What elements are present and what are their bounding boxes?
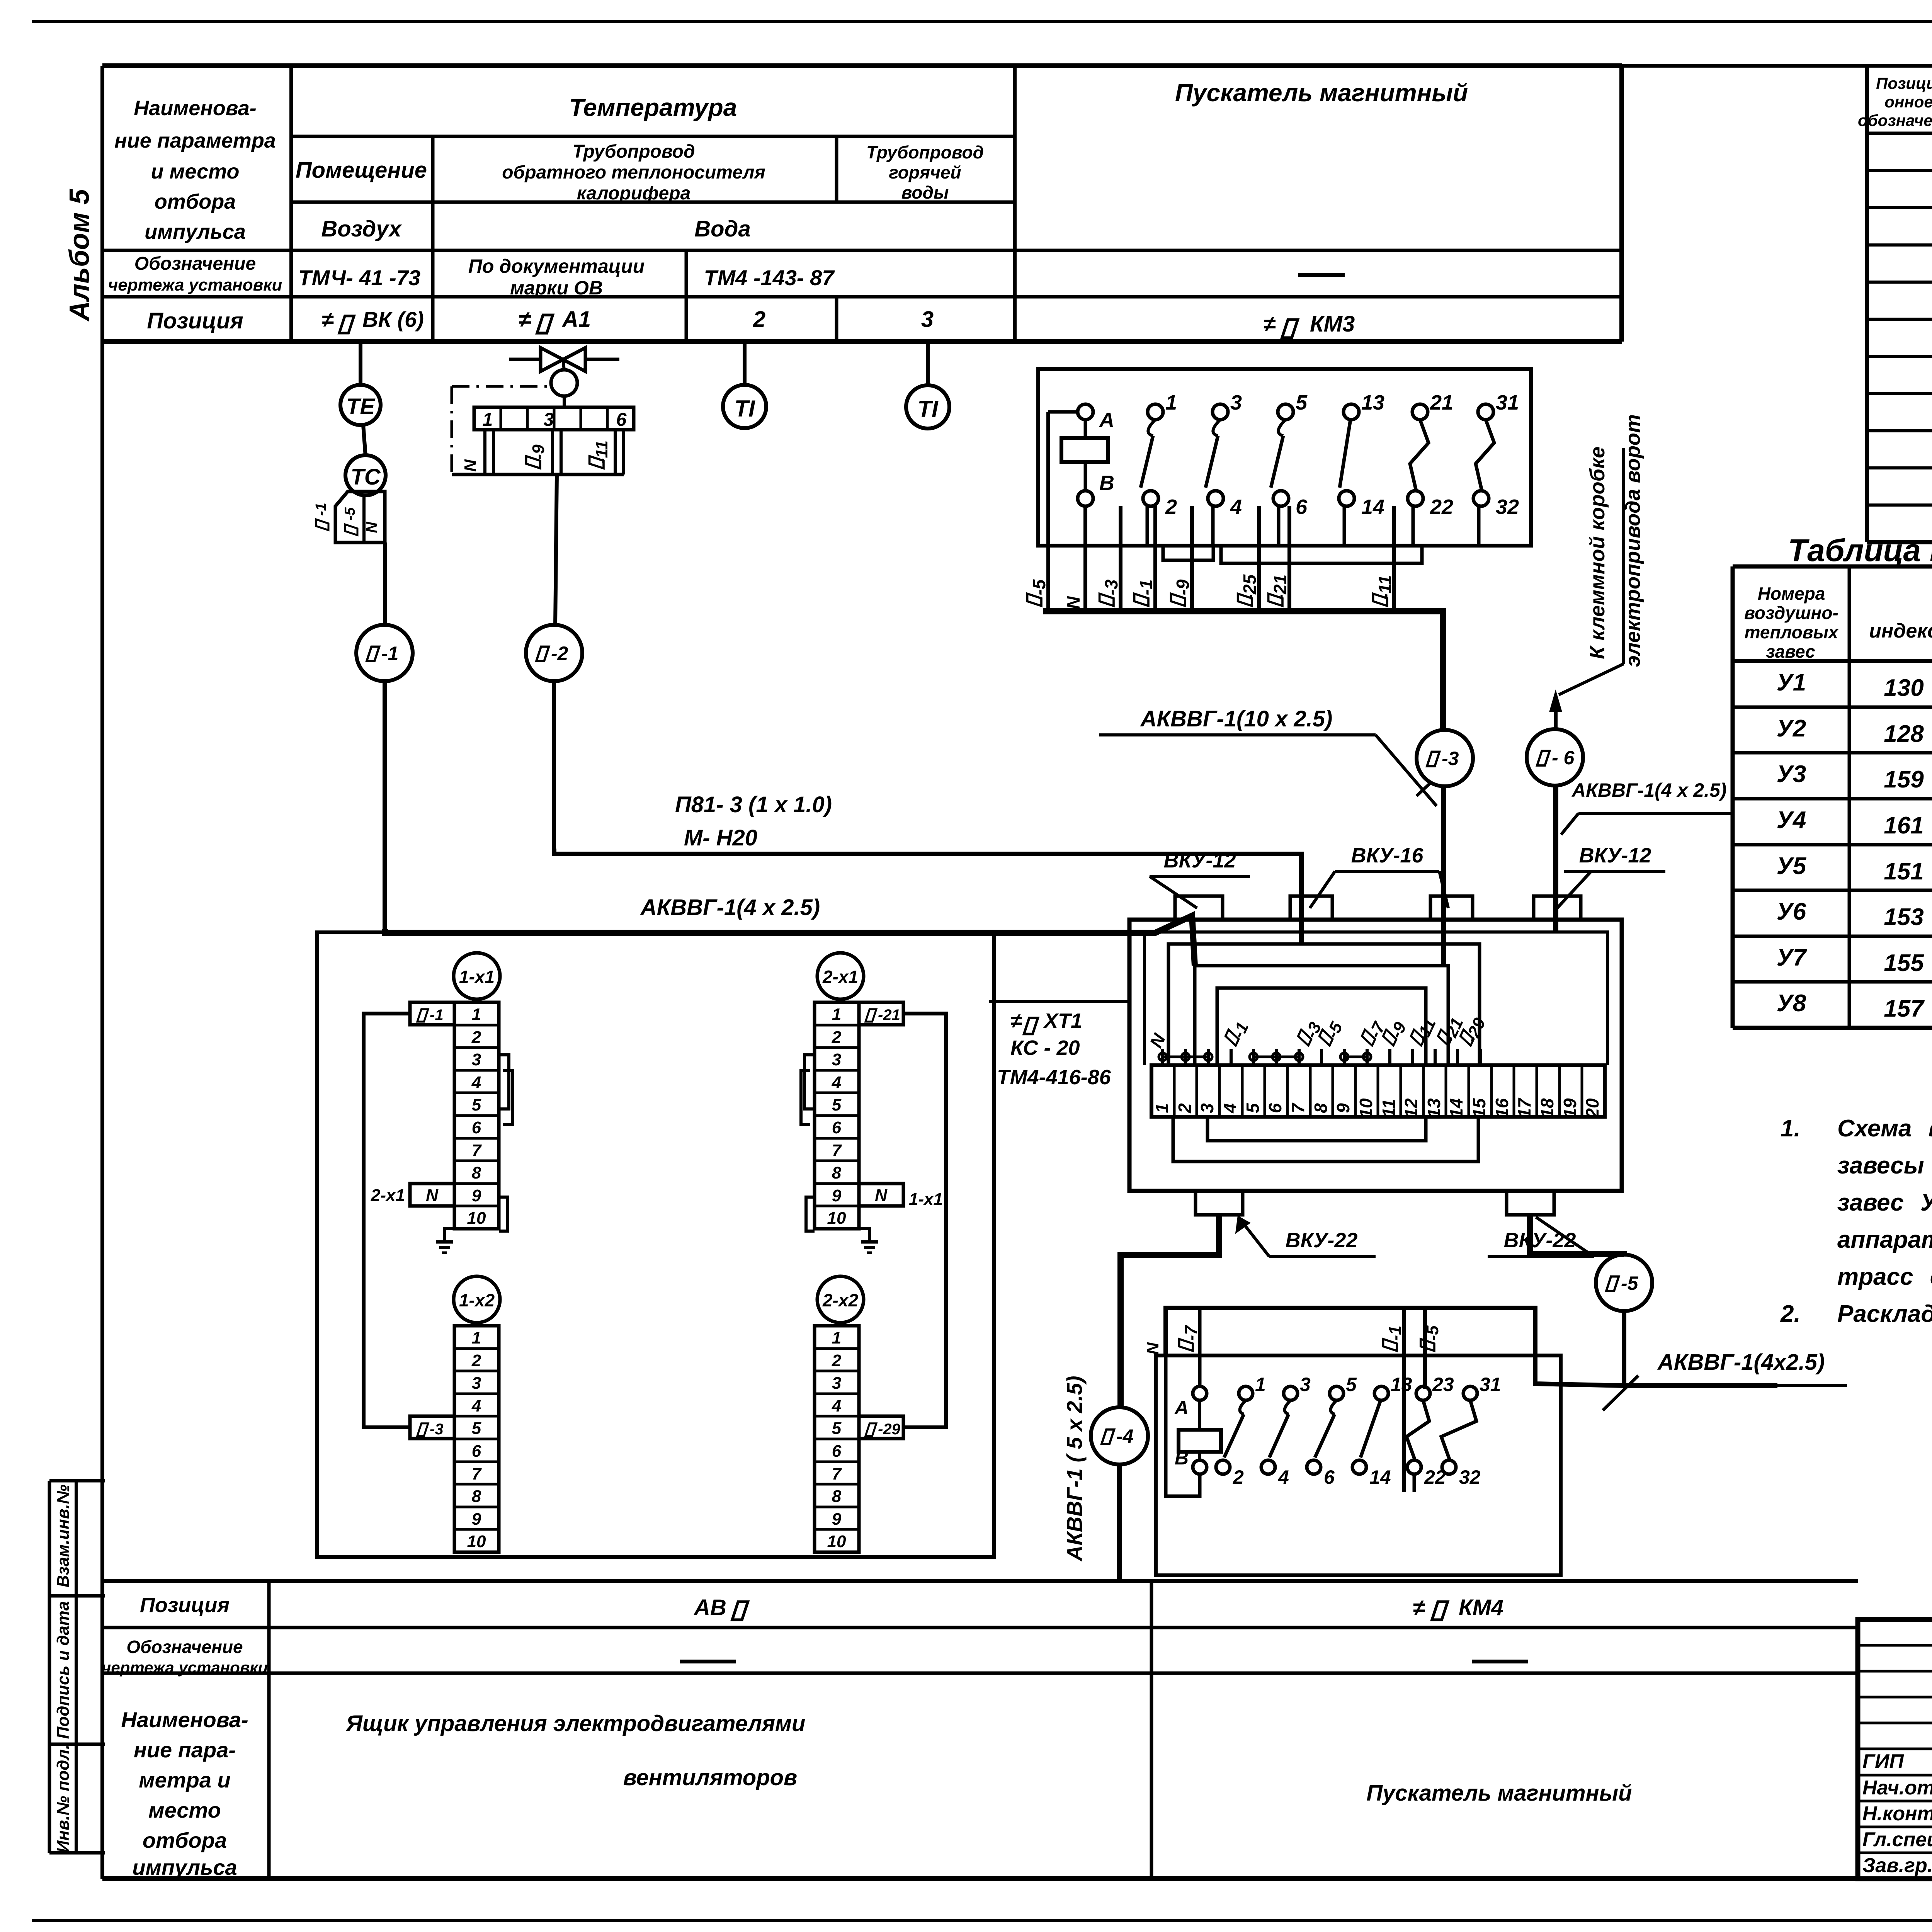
svg-text:4: 4 bbox=[1230, 495, 1242, 519]
svg-text:6: 6 bbox=[832, 1442, 842, 1461]
svg-text:5: 5 bbox=[472, 1095, 481, 1114]
svg-text:13: 13 bbox=[1424, 1098, 1444, 1118]
tab N (to 2-x1) on 1-x1 bbox=[410, 1184, 454, 1206]
svg-text:2-х1: 2-х1 bbox=[822, 967, 858, 987]
leader to gate terminal box note bbox=[1622, 448, 1625, 664]
svg-text:1: 1 bbox=[472, 1005, 481, 1024]
svg-text:1: 1 bbox=[1255, 1374, 1266, 1395]
sheet frame border bbox=[102, 64, 1932, 68]
svg-text:-1: -1 bbox=[430, 1007, 444, 1024]
sensor TE bbox=[359, 343, 362, 385]
svg-text:6: 6 bbox=[1265, 1103, 1285, 1113]
svg-text:7: 7 bbox=[832, 1141, 842, 1160]
svg-text:место: место bbox=[148, 1798, 221, 1822]
svg-text:ХТ1: ХТ1 bbox=[1043, 1009, 1082, 1032]
svg-text:А: А bbox=[1099, 408, 1114, 432]
svg-text:14: 14 bbox=[1446, 1098, 1466, 1118]
left margin stamp boxes bbox=[49, 1479, 105, 1483]
svg-text:обратного теплоносителя: обратного теплоносителя bbox=[502, 162, 765, 183]
svg-text:Трубопровод: Трубопровод bbox=[866, 142, 984, 162]
svg-text:Обозначение: Обозначение bbox=[126, 1637, 243, 1657]
svg-text:П81- 3 (1 х 1.0): П81- 3 (1 х 1.0) bbox=[675, 792, 832, 817]
KM4 wire D-5 bbox=[1423, 1308, 1427, 1389]
svg-text:импульса: импульса bbox=[145, 220, 246, 243]
applicability table grid bbox=[1733, 565, 1932, 569]
svg-text:Позици-: Позици- bbox=[1876, 74, 1932, 92]
svg-text:Наименова-: Наименова- bbox=[121, 1708, 248, 1732]
title block bbox=[1858, 1619, 1932, 1879]
terminal strip 2-х2 body bbox=[815, 1326, 859, 1552]
svg-text:Нач.отд: Нач.отд bbox=[1862, 1777, 1932, 1799]
leader from label to box bbox=[989, 1000, 1129, 1003]
svg-text:-11: -11 bbox=[592, 440, 611, 464]
cable run to P-5 bbox=[1530, 1215, 1624, 1255]
svg-text:ТМ4 -143- 87: ТМ4 -143- 87 bbox=[704, 265, 835, 290]
trace circle P-1 bbox=[356, 625, 413, 681]
svg-text:завес: завес bbox=[1766, 641, 1815, 662]
jumper bracket rows 9-10 of 1-x1 bbox=[499, 1197, 507, 1231]
svg-text:Температура: Температура bbox=[569, 94, 737, 121]
svg-text:≠: ≠ bbox=[322, 307, 334, 332]
KM4 contact 31/32 bbox=[1463, 1386, 1477, 1400]
svg-text:1-х1: 1-х1 bbox=[909, 1190, 943, 1209]
svg-text:7: 7 bbox=[1288, 1102, 1308, 1113]
svg-text:155: 155 bbox=[1884, 950, 1924, 976]
svg-text:6: 6 bbox=[1324, 1466, 1335, 1488]
svg-text:ние пара-: ние пара- bbox=[134, 1738, 236, 1762]
svg-text:отбора: отбора bbox=[143, 1828, 227, 1852]
svg-text:1: 1 bbox=[832, 1328, 841, 1347]
svg-text:калорифера: калорифера bbox=[577, 183, 691, 204]
svg-text:13: 13 bbox=[1361, 391, 1384, 414]
magnetic starter KM3 box bbox=[1038, 369, 1531, 546]
svg-text:А: А bbox=[1174, 1397, 1189, 1418]
svg-text:16: 16 bbox=[1492, 1098, 1512, 1118]
cable bus to P-3 bbox=[1043, 611, 1443, 730]
svg-text:2: 2 bbox=[1233, 1466, 1244, 1488]
valve terminal strip 1..6 bbox=[563, 396, 566, 407]
svg-text:N: N bbox=[363, 521, 380, 533]
svg-text:ВК (6): ВК (6) bbox=[362, 307, 424, 332]
svg-text:9: 9 bbox=[472, 1186, 481, 1205]
KM3 contact 3/4 bbox=[1213, 404, 1228, 420]
svg-text:2: 2 bbox=[1165, 495, 1177, 519]
svg-text:≠: ≠ bbox=[1010, 1009, 1022, 1032]
svg-text:11: 11 bbox=[1379, 1099, 1399, 1117]
wire TE to TC bbox=[363, 425, 366, 456]
svg-text:-21: -21 bbox=[878, 1007, 900, 1024]
ground at 2-x1 bbox=[859, 1229, 869, 1242]
wire strip to P-2 bbox=[555, 474, 557, 625]
trace circle P-3 bbox=[1417, 730, 1473, 786]
thermometer TI (return pipe) bbox=[743, 344, 747, 385]
svg-text:≠: ≠ bbox=[1413, 1595, 1425, 1620]
KM4 wire 22 to jumper bbox=[1413, 1474, 1416, 1492]
KM4 wire D-1 bbox=[1402, 1308, 1406, 1492]
svg-text:КМ3: КМ3 bbox=[1310, 311, 1355, 337]
svg-text:Взам.инв.№: Взам.инв.№ bbox=[54, 1485, 73, 1587]
svg-text:-1: -1 bbox=[1136, 580, 1156, 595]
cable gland VKU-12 right bbox=[1534, 896, 1581, 920]
sheet top trim line bbox=[32, 20, 1932, 23]
svg-text:Помещение: Помещение bbox=[296, 158, 427, 183]
svg-text:6: 6 bbox=[472, 1118, 481, 1137]
svg-text:вентиляторов: вентиляторов bbox=[623, 1765, 797, 1790]
KM3 contact 31/32 bbox=[1478, 404, 1493, 420]
svg-text:Инв.№ подл.: Инв.№ подл. bbox=[54, 1745, 73, 1853]
svg-text:Схема внешних проводок выпол: Схема внешних проводок выполнена для воз… bbox=[1837, 1115, 1932, 1142]
tab D-21 on 2-x1 bbox=[859, 1002, 903, 1025]
svg-text:индекс: индекс bbox=[1869, 620, 1932, 642]
svg-text:АКВВГ-1 ( 5 х 2.5): АКВВГ-1 ( 5 х 2.5) bbox=[1062, 1376, 1087, 1562]
svg-text:Зав.гр.: Зав.гр. bbox=[1862, 1854, 1932, 1877]
svg-text:АВ: АВ bbox=[693, 1595, 726, 1620]
wire tab to P-1 bbox=[383, 543, 387, 625]
wire P-1 down bbox=[383, 681, 387, 929]
cable gland VKU-22 left bbox=[1196, 1191, 1243, 1215]
wire P-3 to junction box bbox=[1441, 786, 1446, 966]
cable AKVVG-1(5x2.5) down from P-4 bbox=[1117, 1464, 1122, 1579]
cable gland VKU-22 right bbox=[1507, 1191, 1554, 1215]
svg-text:4: 4 bbox=[471, 1073, 481, 1092]
svg-text:31: 31 bbox=[1480, 1374, 1501, 1395]
svg-text:8: 8 bbox=[832, 1487, 842, 1506]
parts list table bbox=[1865, 65, 1869, 542]
jumper links terminals 1-2-3 bbox=[1159, 1053, 1167, 1061]
svg-text:Обозначение: Обозначение bbox=[134, 253, 256, 274]
svg-text:9: 9 bbox=[832, 1510, 842, 1529]
svg-text:5: 5 bbox=[1243, 1103, 1263, 1113]
KM4 coil B return bbox=[1166, 1310, 1200, 1496]
svg-text:АКВВГ-1(4 х 2.5): АКВВГ-1(4 х 2.5) bbox=[640, 895, 820, 920]
svg-text:-7: -7 bbox=[1182, 1325, 1201, 1341]
wire D-1 to left bus bbox=[364, 1014, 410, 1427]
svg-text:Таблица применяемости и дл: Таблица применяемости и длин трасс bbox=[1788, 533, 1932, 568]
svg-text:153: 153 bbox=[1884, 904, 1923, 930]
terminal strip 2-х1 body bbox=[815, 1002, 859, 1229]
svg-text:8: 8 bbox=[472, 1163, 481, 1182]
svg-text:4: 4 bbox=[832, 1073, 841, 1092]
svg-text:-1: -1 bbox=[381, 643, 398, 664]
trace circle P-5 bbox=[1596, 1255, 1652, 1311]
svg-text:1: 1 bbox=[483, 410, 493, 430]
svg-text:3: 3 bbox=[1197, 1103, 1217, 1113]
svg-text:-3: -3 bbox=[430, 1421, 444, 1438]
valve actuator bbox=[563, 359, 564, 370]
svg-text:1: 1 bbox=[1152, 1103, 1172, 1113]
svg-text:128: 128 bbox=[1884, 721, 1924, 747]
jumper bracket rows 3-5 of 1-x1 bbox=[499, 1055, 509, 1109]
svg-text:Раскладка трасс: Раскладка трасс bbox=[1837, 1301, 1932, 1327]
sensor TC bbox=[345, 455, 386, 495]
svg-text:горячей: горячей bbox=[889, 162, 961, 182]
svg-text:5: 5 bbox=[832, 1095, 842, 1114]
tab N (to 1-x1) on 2-x1 bbox=[859, 1184, 903, 1206]
svg-text:В: В bbox=[1099, 471, 1114, 495]
jumper bracket rows 3-5 of 2-x1 bbox=[804, 1055, 815, 1109]
svg-text:23: 23 bbox=[1432, 1374, 1454, 1395]
header table grid bbox=[102, 63, 1622, 68]
svg-text:157: 157 bbox=[1884, 995, 1925, 1022]
svg-text:-11: -11 bbox=[1375, 575, 1395, 599]
svg-text:У2: У2 bbox=[1777, 715, 1806, 742]
svg-text:ТМЧ- 41 -73: ТМЧ- 41 -73 bbox=[298, 265, 420, 290]
svg-text:9: 9 bbox=[832, 1186, 842, 1205]
cable gland VKU-12 left bbox=[1175, 896, 1223, 920]
svg-text:АКВВГ-1(10 х 2.5): АКВВГ-1(10 х 2.5) bbox=[1140, 706, 1333, 731]
svg-text:N: N bbox=[875, 1186, 888, 1205]
svg-text:151: 151 bbox=[1884, 858, 1923, 885]
svg-text:9: 9 bbox=[472, 1510, 481, 1529]
svg-text:32: 32 bbox=[1496, 495, 1519, 519]
terminal strip 2-х1 label bbox=[817, 953, 864, 999]
svg-text:N: N bbox=[1063, 596, 1083, 609]
tab D-1 on 1-x1 bbox=[410, 1002, 454, 1025]
KM3 contact 21/22 bbox=[1412, 404, 1428, 420]
svg-text:По документации: По документации bbox=[468, 255, 645, 277]
svg-text:1-х2: 1-х2 bbox=[459, 1290, 495, 1310]
svg-text:1: 1 bbox=[1165, 391, 1177, 414]
svg-text:8: 8 bbox=[1311, 1103, 1331, 1113]
svg-text:4: 4 bbox=[1220, 1103, 1240, 1114]
svg-text:отбора: отбора bbox=[155, 190, 236, 213]
svg-text:Наименова-: Наименова- bbox=[134, 97, 257, 120]
svg-text:Н.контр: Н.контр bbox=[1862, 1803, 1932, 1825]
svg-text:N: N bbox=[1143, 1342, 1162, 1355]
KM4 coil bbox=[1198, 1308, 1202, 1386]
svg-text:3: 3 bbox=[472, 1050, 481, 1069]
KM3 wires to cable bus bbox=[1046, 412, 1050, 611]
svg-text:У5: У5 bbox=[1777, 853, 1807, 879]
svg-text:-9: -9 bbox=[1173, 579, 1193, 595]
svg-text:Позиция: Позиция bbox=[147, 308, 243, 333]
svg-text:К клеммной коробке: К клеммной коробке bbox=[1586, 447, 1609, 659]
svg-text:159: 159 bbox=[1884, 766, 1924, 793]
svg-text:импульса: импульса bbox=[132, 1855, 237, 1879]
KM4 contact 13/14 bbox=[1374, 1386, 1388, 1400]
svg-text:5: 5 bbox=[1296, 391, 1308, 414]
svg-text:4: 4 bbox=[1278, 1466, 1289, 1488]
svg-text:10: 10 bbox=[467, 1209, 486, 1228]
svg-text:15: 15 bbox=[1469, 1098, 1489, 1118]
KM3 contact 1/2 bbox=[1148, 404, 1163, 420]
svg-text:У3: У3 bbox=[1777, 761, 1806, 787]
svg-text:-25: -25 bbox=[1240, 574, 1260, 600]
svg-text:13: 13 bbox=[1391, 1374, 1412, 1395]
KM4 contact 3/4 bbox=[1284, 1386, 1298, 1400]
KM4 contact 5/6 bbox=[1330, 1386, 1344, 1400]
svg-text:10: 10 bbox=[827, 1209, 846, 1228]
jumper below contacts 6-22 bbox=[1221, 546, 1422, 563]
svg-text:5: 5 bbox=[832, 1419, 842, 1438]
svg-text:ние параметра: ние параметра bbox=[114, 129, 276, 152]
svg-text:21: 21 bbox=[1430, 391, 1453, 414]
svg-text:Пускатель магнитный: Пускатель магнитный bbox=[1366, 1781, 1632, 1806]
KM4 contact 1/2 bbox=[1239, 1386, 1253, 1400]
svg-text:-5: -5 bbox=[1621, 1272, 1639, 1294]
cable gland VKU-16 b bbox=[1430, 896, 1473, 920]
svg-text:трасс согласно таблице примен: трасс согласно таблице применяемости и д… bbox=[1837, 1264, 1932, 1290]
svg-text:2: 2 bbox=[471, 1351, 481, 1370]
wire P81-3 run to junction box bbox=[554, 849, 1301, 944]
svg-text:КС - 20: КС - 20 bbox=[1010, 1036, 1080, 1060]
svg-text:воздушно-: воздушно- bbox=[1744, 603, 1838, 623]
trace circle P-2 bbox=[526, 625, 582, 681]
svg-text:2-х1: 2-х1 bbox=[371, 1186, 405, 1205]
svg-text:-5: -5 bbox=[1029, 579, 1049, 595]
KM3 contact 5/6 bbox=[1278, 404, 1293, 420]
svg-text:У1: У1 bbox=[1777, 669, 1806, 696]
svg-text:≠: ≠ bbox=[1263, 311, 1276, 337]
svg-text:3: 3 bbox=[832, 1374, 841, 1393]
svg-text:Альбом 5: Альбом 5 bbox=[64, 189, 95, 321]
svg-text:5: 5 bbox=[472, 1419, 481, 1438]
cable run to P-4 bbox=[1121, 1215, 1219, 1407]
svg-text:22: 22 bbox=[1430, 495, 1453, 519]
svg-text:-9: -9 bbox=[529, 444, 548, 460]
svg-text:9: 9 bbox=[1333, 1103, 1353, 1113]
lower sheath loops bbox=[1173, 1117, 1478, 1162]
svg-text:обозначение: обозначение bbox=[1858, 111, 1932, 129]
svg-text:2: 2 bbox=[471, 1028, 481, 1047]
thermometer TI (hot water) bbox=[926, 344, 930, 385]
svg-text:-3: -3 bbox=[1101, 579, 1121, 595]
svg-text:Пускатель магнитный: Пускатель магнитный bbox=[1175, 79, 1468, 107]
ground at 1-x1 bbox=[444, 1229, 454, 1242]
jumper links terminals 5-6-7 bbox=[1250, 1053, 1257, 1061]
svg-text:завес У2 ... У8 с указанием: завес У2 ... У8 с указанием в bbox=[1837, 1189, 1932, 1216]
svg-text:воды: воды bbox=[901, 182, 949, 202]
terminal strip 2-х2 label bbox=[817, 1276, 864, 1323]
svg-text:М- Н20: М- Н20 bbox=[684, 825, 757, 850]
svg-text:4: 4 bbox=[832, 1396, 841, 1415]
terminal strip 1-х1 body bbox=[454, 1002, 499, 1229]
svg-text:8: 8 bbox=[832, 1163, 842, 1182]
svg-text:В: В bbox=[1175, 1447, 1189, 1469]
svg-text:8: 8 bbox=[472, 1487, 481, 1506]
svg-text:-5: -5 bbox=[1423, 1325, 1442, 1341]
svg-text:У6: У6 bbox=[1777, 898, 1806, 925]
svg-text:ВКУ-22: ВКУ-22 bbox=[1504, 1229, 1576, 1252]
wire D-21 to right bus bbox=[903, 1014, 946, 1427]
svg-text:10: 10 bbox=[467, 1532, 486, 1551]
terminal tab D-5/N under TC bbox=[335, 492, 385, 543]
svg-text:онное: онное bbox=[1884, 93, 1932, 111]
wire P-6 with arrow to gate drive terminal box bbox=[1554, 700, 1558, 729]
svg-text:3: 3 bbox=[544, 410, 554, 430]
svg-text:ТI: ТI bbox=[917, 396, 939, 422]
svg-text:ГИП: ГИП bbox=[1862, 1750, 1904, 1773]
svg-text:2-х2: 2-х2 bbox=[822, 1290, 858, 1310]
svg-text:ТЕ: ТЕ bbox=[346, 394, 376, 419]
svg-text:1: 1 bbox=[472, 1328, 481, 1347]
svg-text:3: 3 bbox=[1300, 1374, 1311, 1395]
svg-text:Трубопровод: Трубопровод bbox=[572, 141, 695, 162]
svg-text:Номера: Номера bbox=[1758, 583, 1825, 604]
KM3 coil bbox=[1078, 404, 1093, 420]
svg-text:- 6: - 6 bbox=[1552, 747, 1575, 769]
svg-text:2: 2 bbox=[1175, 1103, 1195, 1114]
svg-text:метра и: метра и bbox=[139, 1768, 230, 1792]
svg-text:130: 130 bbox=[1884, 675, 1923, 701]
svg-text:17: 17 bbox=[1514, 1097, 1534, 1118]
fan control cabinet box bbox=[317, 932, 994, 1557]
cable AKVVG-1(4x2.5) run to junction box bbox=[385, 916, 1195, 966]
svg-text:Вода: Вода bbox=[694, 216, 750, 241]
svg-text:N: N bbox=[426, 1186, 439, 1205]
svg-text:КМ4: КМ4 bbox=[1459, 1595, 1503, 1620]
svg-text:-1: -1 bbox=[1386, 1325, 1405, 1340]
junction box XT1 bbox=[1129, 920, 1622, 1191]
svg-text:2: 2 bbox=[832, 1028, 842, 1047]
svg-text:14: 14 bbox=[1361, 495, 1384, 519]
svg-text:6: 6 bbox=[1296, 495, 1308, 519]
sheet bottom trim line bbox=[32, 1919, 1932, 1922]
svg-text:N: N bbox=[461, 459, 480, 472]
svg-text:-4: -4 bbox=[1116, 1425, 1133, 1447]
svg-text:А1: А1 bbox=[561, 307, 591, 332]
svg-text:7: 7 bbox=[472, 1141, 482, 1160]
svg-text:3: 3 bbox=[921, 307, 934, 332]
svg-text:20: 20 bbox=[1582, 1098, 1602, 1119]
svg-text:ТМ4-416-86: ТМ4-416-86 bbox=[997, 1066, 1111, 1089]
svg-text:2: 2 bbox=[832, 1351, 842, 1370]
svg-text:и место: и место bbox=[151, 160, 240, 183]
svg-text:Позиция: Позиция bbox=[140, 1594, 230, 1617]
svg-text:-29: -29 bbox=[878, 1421, 901, 1438]
cable sheath loops inside box bbox=[1168, 944, 1480, 1065]
svg-text:аппаратов, приборов и клеммны: аппаратов, приборов и клеммных коробок и… bbox=[1837, 1226, 1932, 1253]
stubs from contact bottoms bbox=[1146, 506, 1149, 546]
jumper links terminals 9-10 bbox=[1340, 1053, 1348, 1061]
svg-text:марки ОВ: марки ОВ bbox=[510, 277, 603, 299]
svg-text:-2: -2 bbox=[551, 643, 568, 664]
label D-1 left of tab bbox=[316, 519, 328, 530]
magnetic starter KM4 box bbox=[1156, 1355, 1561, 1575]
terminal strip 1-х2 label bbox=[454, 1276, 500, 1323]
svg-text:1: 1 bbox=[832, 1005, 841, 1024]
cable gland VKU-16 a bbox=[1290, 896, 1332, 920]
svg-text:ВКУ-12: ВКУ-12 bbox=[1579, 844, 1651, 867]
svg-text:-1: -1 bbox=[313, 503, 329, 516]
svg-text:тепловых: тепловых bbox=[1745, 622, 1839, 642]
wire P-2 down bbox=[552, 681, 556, 849]
svg-text:5: 5 bbox=[1346, 1374, 1357, 1395]
wire drops to terminals bbox=[1161, 1049, 1164, 1065]
KM3 contact 13/14 bbox=[1344, 404, 1359, 420]
svg-text:7: 7 bbox=[472, 1464, 482, 1483]
svg-text:32: 32 bbox=[1459, 1466, 1481, 1488]
svg-text:3: 3 bbox=[1230, 391, 1242, 414]
svg-text:19: 19 bbox=[1560, 1098, 1580, 1118]
svg-text:1.: 1. bbox=[1781, 1115, 1801, 1142]
svg-text:-21: -21 bbox=[1270, 575, 1290, 600]
svg-text:10: 10 bbox=[1356, 1098, 1376, 1118]
svg-text:ВКУ-22: ВКУ-22 bbox=[1286, 1229, 1358, 1252]
KM4 contact 23/22 bbox=[1416, 1386, 1430, 1400]
svg-text:6: 6 bbox=[616, 410, 627, 430]
svg-text:электропривода ворот: электропривода ворот bbox=[1621, 414, 1645, 667]
valve bbox=[541, 348, 585, 371]
svg-text:-3: -3 bbox=[1442, 748, 1459, 769]
svg-text:2: 2 bbox=[753, 307, 765, 332]
strip tabs N, D-9, D-11 bbox=[483, 430, 486, 474]
svg-text:3: 3 bbox=[832, 1050, 841, 1069]
svg-text:чертежа установки: чертежа установки bbox=[108, 276, 282, 294]
svg-text:Гл.спец: Гл.спец bbox=[1862, 1828, 1932, 1851]
svg-text:6: 6 bbox=[472, 1442, 481, 1461]
svg-text:ВКУ-12: ВКУ-12 bbox=[1164, 849, 1236, 872]
